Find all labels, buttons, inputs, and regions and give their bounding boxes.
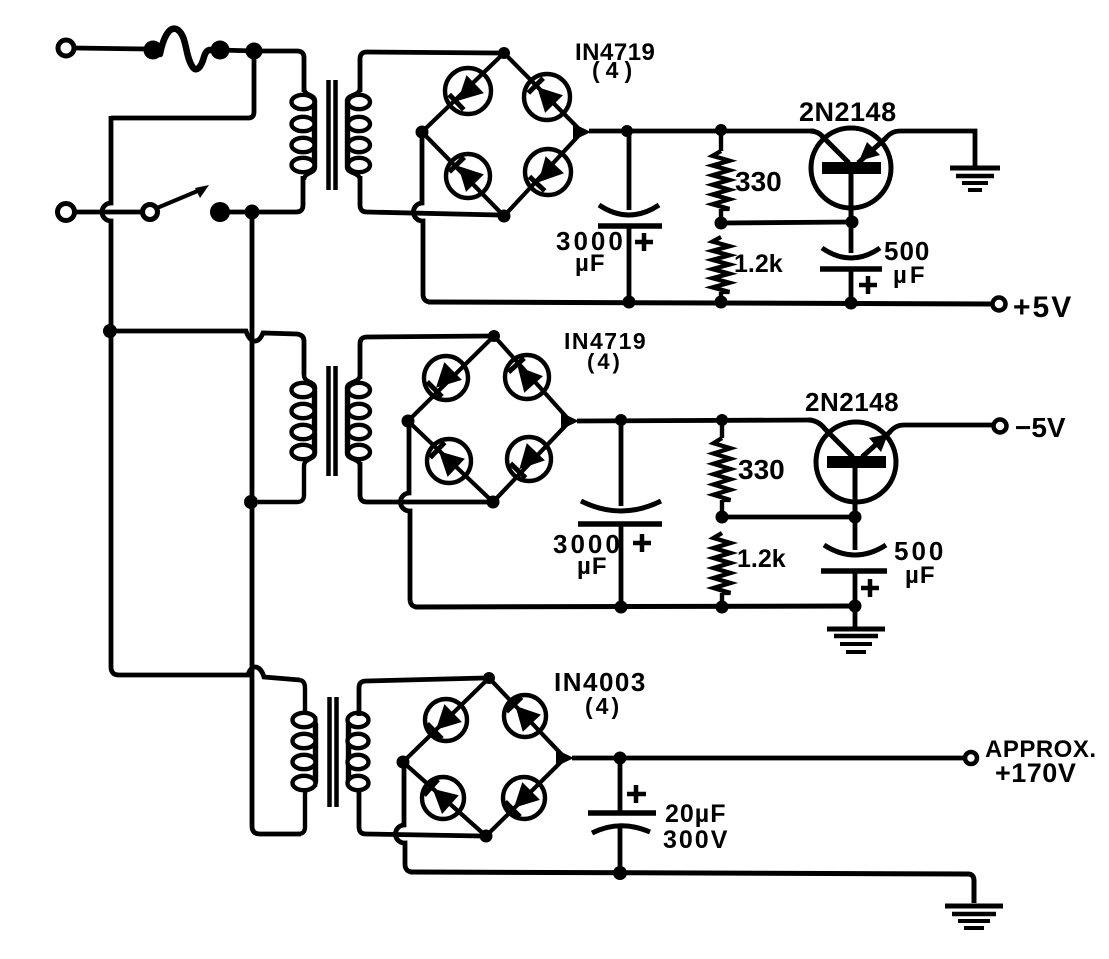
node: Q2 base junction: [849, 511, 862, 524]
svg-text:2N2148: 2N2148: [799, 97, 897, 127]
wire switch to T1 primary bottom: [220, 176, 303, 212]
ground symbol G2: [827, 627, 885, 632]
node: R3/R4 junction: [716, 511, 729, 524]
diode bridge B1: diagonal wires: [422, 53, 504, 132]
wire Q1 collector to ground: [885, 131, 975, 166]
diode B2BR (triangle): [519, 443, 545, 469]
svg-text:µF: µF: [575, 250, 606, 277]
fuse end dot right: [211, 41, 230, 60]
terminal A (AC line top): [58, 40, 74, 56]
wire T3 secondary bottom to bridge B3 bottom: [359, 790, 481, 836]
capacitor C3 3000uF top lead: [619, 420, 624, 506]
svg-text:µF: µF: [577, 553, 608, 580]
+170V rail: [572, 756, 965, 761]
wire rail to Q1 emitter: [810, 131, 849, 163]
svg-text:20µF: 20µF: [665, 800, 726, 828]
wire T1 secondary top to bridge B1 top: [360, 52, 499, 92]
svg-text:µF: µF: [893, 262, 928, 289]
bridge B3 bottom node: [480, 830, 493, 843]
diode B2TR (triangle): [518, 367, 543, 393]
capacitor C4 500uF top lead: [853, 517, 858, 550]
node: resistor 330 top junction: [715, 124, 727, 136]
transformer T3 primary winding: [298, 680, 316, 834]
bridge B1 right node (arrow): [573, 124, 591, 141]
diode B1BR cathode bar: [529, 177, 544, 191]
transformer T2 primary winding: [258, 375, 315, 502]
node: R2 bottom: [715, 296, 728, 309]
Q2 emitter arrow (pointing out): [869, 434, 888, 452]
diode B1BL (triangle): [458, 166, 484, 192]
Q2 base lead: [853, 468, 858, 517]
node: C5 bottom: [613, 866, 627, 880]
capacitor C3 3000uF: [581, 501, 661, 511]
transformer T1 primary winding: [304, 88, 315, 180]
switched-neutral vertical down to T3 primary bottom: [252, 212, 301, 834]
transistor Q2 2N2148 body: [816, 422, 896, 502]
transformer T2 core: [329, 366, 336, 476]
ground rail section3: [410, 872, 974, 903]
wire hot junction down and left to hot bus: [111, 51, 254, 118]
bridge B3 left node: [397, 756, 410, 769]
node: hot junction after fuse: [246, 43, 263, 60]
diode B1TL (triangle): [458, 75, 484, 101]
capacitor C5 20uF plus sign: [627, 785, 646, 803]
node: hot bus branch to T2: [103, 324, 117, 338]
terminal B (AC line bottom): [58, 204, 75, 221]
Q1 base bar: [822, 162, 881, 174]
bridge B1 top node: [498, 47, 510, 59]
wire to ground G2: [853, 606, 858, 627]
switch output dot: [210, 202, 230, 222]
diode bridge B2: diagonal wires: [408, 336, 494, 421]
terminal -5V: [994, 420, 1007, 433]
capacitor C3 bottom lead: [619, 524, 624, 607]
diode B2TL cathode bar: [427, 382, 442, 397]
wire B3 left node down to ground rail (hop over secondary wire): [395, 766, 413, 872]
capacitor C1 3000uF top lead: [627, 131, 632, 210]
node: C1 bottom: [623, 296, 636, 309]
wire T2 secondary bottom to bridge B2 bottom: [360, 462, 488, 502]
capacitor C2 500uF top lead: [849, 222, 854, 253]
negative rail section1: [428, 302, 993, 304]
svg-text:+170V: +170V: [995, 758, 1076, 788]
diode B1BL cathode bar: [449, 157, 464, 172]
diode B1TL cathode bar: [449, 95, 464, 110]
diode bridge B2: circles: [424, 356, 468, 400]
bridge B1 bottom node: [498, 210, 511, 223]
bridge B2 top node: [488, 330, 500, 342]
transformer T1 core: [329, 80, 336, 190]
diode B3BR cathode bar: [505, 802, 520, 817]
switch S1 pivot: [143, 205, 158, 220]
diode B2BL cathode bar: [430, 442, 445, 457]
transformer T1 secondary winding: [347, 88, 360, 180]
diode bridge B3: circles: [425, 699, 467, 741]
svg-text:µF: µF: [905, 562, 936, 589]
resistor R3 330: [720, 420, 724, 438]
svg-text:(4): (4): [585, 693, 622, 719]
diode bridge B1: circles: [445, 68, 491, 114]
diode B2BR cathode bar: [510, 463, 525, 477]
node: C3 bottom: [615, 601, 628, 614]
capacitor C4 500uF: [824, 545, 886, 555]
svg-text:1.2k: 1.2k: [737, 545, 786, 573]
bridge B3 right node (arrow): [556, 750, 574, 767]
bridge B1 left node: [416, 126, 429, 139]
switch S1 arrowhead: [195, 185, 209, 198]
node: Q1 base junction: [846, 216, 859, 229]
node: cap C3 top junction: [615, 414, 627, 426]
Q1 base lead: [849, 174, 854, 222]
diode B3TR (triangle): [515, 706, 541, 732]
svg-text:−5V: −5V: [1015, 412, 1066, 443]
diode B1BR (triangle): [539, 156, 565, 182]
resistor R2 1.2k: [713, 237, 730, 292]
svg-text:(4): (4): [592, 57, 638, 83]
diode B3TL cathode bar: [427, 724, 442, 739]
diode B2BL (triangle): [439, 451, 465, 477]
wire T3 secondary top to bridge B3 top: [359, 678, 484, 716]
diode bridge B3: diagonal wires: [403, 678, 489, 762]
wire terminal B to switch: [75, 210, 143, 215]
hot bus (left vertical) with hop over switch wire, corner to T3 primary: [102, 116, 300, 680]
transformer T3 secondary winding: [348, 712, 359, 794]
wire fuse to junction: [220, 50, 254, 51]
capacitor C5 bottom lead: [618, 828, 623, 872]
svg-text:1.2k: 1.2k: [734, 250, 783, 278]
node: cap C1 top junction: [621, 125, 633, 137]
node: T2 primary bottom junction: [244, 495, 258, 509]
wire hot junction to T1 primary top: [254, 51, 304, 92]
node: C5 top junction: [614, 752, 627, 765]
wire T2 secondary top to bridge B2 top: [360, 336, 489, 379]
svg-text:330: 330: [738, 454, 785, 485]
resistor R1 330: [713, 151, 730, 209]
resistor R1 330 leads: [719, 130, 723, 151]
capacitor C1 bottom lead: [627, 226, 632, 302]
bridge B2 bottom node: [487, 496, 500, 509]
fuse end dot left: [144, 41, 163, 60]
capacitor C5 20uF top lead: [618, 758, 623, 811]
capacitor C1 3000uF: [599, 205, 659, 215]
capacitor C2 bottom lead: [849, 269, 854, 302]
bridge B3 top node: [483, 672, 495, 684]
wire B1 left node down to negative rail (hop over secondary wire): [413, 136, 431, 302]
capacitor C2 500uF: [822, 248, 880, 258]
node: resistor 330 top junction (R3): [716, 414, 728, 426]
-DC rail section2: [577, 420, 812, 421]
node: switched neutral junction: [245, 205, 260, 220]
+DC rail section1: [589, 129, 814, 134]
node: R1/R2 junction: [715, 217, 728, 230]
diode B2TR cathode bar: [509, 358, 525, 372]
node: C4 bottom / ground tap: [849, 600, 862, 613]
wire rail to Q2 emitter: [808, 420, 853, 457]
switch S1 arm: [157, 190, 200, 208]
Q1 collector diagonal: [858, 138, 886, 163]
terminal +170V: [965, 752, 977, 764]
diode B1TR cathode bar: [528, 78, 543, 93]
svg-text:+5V: +5V: [1013, 291, 1073, 324]
wire Q2 collector to -5V terminal: [889, 425, 993, 433]
ground symbol G1: [950, 166, 1000, 171]
transistor Q1 2N2148 body: [811, 128, 891, 208]
resistor R4 1.2k: [714, 533, 731, 593]
terminal +5V: [993, 298, 1006, 311]
diode B3BL (triangle): [433, 789, 459, 814]
wire B2 left node down to negative rail (hop over secondary wire): [400, 425, 418, 607]
svg-text:(4): (4): [587, 349, 623, 374]
diode B3BR (triangle): [514, 782, 540, 808]
diode B3TL (triangle): [436, 704, 462, 730]
transformer T2 secondary winding: [347, 375, 360, 466]
wire divider junction to Q2 base: [722, 515, 855, 520]
svg-text:2N2148: 2N2148: [805, 387, 899, 417]
node: R4 bottom: [716, 601, 729, 614]
bridge B2 left node: [402, 415, 415, 428]
diode B3TR cathode bar: [506, 697, 521, 711]
wire divider junction to Q1 base: [721, 222, 852, 223]
wire T1 secondary bottom to bridge B1 bottom: [360, 176, 499, 215]
svg-text:300V: 300V: [663, 826, 729, 854]
capacitor C4 bottom lead: [853, 571, 858, 606]
diode B3BL cathode bar: [424, 780, 438, 796]
ground symbol G3: [945, 904, 1003, 909]
fuse F1 (squiggle): [160, 29, 222, 70]
node: C2 bottom: [845, 297, 858, 310]
Q2 base bar: [827, 456, 886, 468]
ground rail section2: [415, 606, 855, 607]
wire hot bus to T2 primary top (hops over neutral vertical): [111, 331, 304, 375]
wire terminal A to fuse: [74, 48, 148, 49]
Q1 emitter arrow: [859, 142, 880, 161]
capacitor C5 20uF: [588, 810, 656, 816]
diode B2TL (triangle): [436, 362, 462, 388]
svg-text:330: 330: [735, 166, 782, 197]
diode B1TR (triangle): [537, 87, 563, 113]
transformer T3 core: [330, 697, 337, 807]
Q2 collector diagonal: [862, 432, 890, 457]
bridge B2 right node (arrow): [561, 413, 579, 430]
